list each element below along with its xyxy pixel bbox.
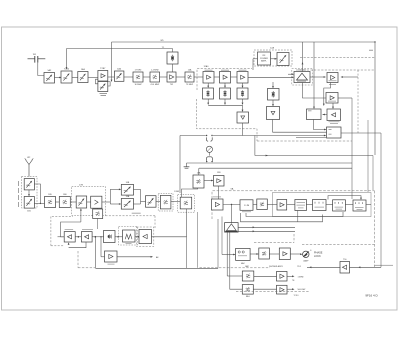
wire FL17 up to IF filter FL18: [182, 188, 198, 197]
wire junction to audio bus: [95, 236, 218, 268]
relay driver K1: [327, 127, 342, 138]
wire U4-U5: [326, 204, 333, 206]
counter U5: [333, 200, 346, 211]
svg-text:17 KHZ: 17 KHZ: [135, 70, 143, 72]
wire RF power module to Q1: [271, 58, 278, 60]
wire A1-FL5: [108, 76, 115, 78]
wire bus drop x197 to audio boundary: [197, 212, 199, 268]
wire A14 out: [287, 288, 306, 291]
wire V4 down to control line: [273, 120, 327, 133]
wire SPKR-A17: [92, 236, 104, 238]
filter FL19: [257, 199, 268, 210]
power amplifier PA3: [237, 70, 248, 83]
wire phase detector feed: [222, 217, 236, 256]
crystal oven Y5: [268, 89, 280, 101]
svg-text:1 MHZ: 1 MHZ: [298, 276, 305, 278]
crystal oscillator Y1: [162, 47, 178, 64]
wire Y3 down to bus: [224, 99, 226, 105]
IF amplifier A2: [167, 72, 176, 86]
module RF power amplifier (text box): [258, 52, 271, 65]
wire PA3 to U10: [248, 73, 294, 78]
wire A19-FL23: [135, 236, 139, 238]
wire bus drop extra x368: [367, 120, 369, 192]
assembly boundary RX mixer (dashed): [72, 185, 106, 216]
wire PA3 to Y4: [242, 83, 244, 88]
wire FL9-FL10: [28, 190, 30, 197]
forward power detector M1: [307, 109, 322, 120]
assembly boundary RX input (dashed): [22, 177, 38, 209]
wire FL22-A14: [253, 288, 276, 290]
wire bus up at x218: [217, 219, 219, 268]
meter M2 (phase lock indicator): [303, 250, 313, 263]
wire Y5 to V4: [272, 100, 274, 107]
wire A8 to FL13: [97, 207, 99, 210]
tunable filter FL1: [44, 69, 55, 83]
wire PA2 to Y3: [224, 83, 226, 88]
svg-text:LAMP: LAMP: [303, 260, 309, 263]
wire into A15 from right: [350, 133, 394, 268]
amplifier A11: [277, 200, 287, 211]
wire junction down to AF amp: [101, 237, 105, 257]
wire A18 out: [117, 256, 159, 259]
wire FL23-SPKR: [115, 236, 123, 238]
final power amplifier U10: [294, 70, 310, 83]
dashed surround FL23: [119, 227, 138, 246]
wire x186 down to bus: [186, 237, 188, 268]
wire FL13 down to audio: [97, 219, 99, 230]
wire PA1-PA2: [214, 76, 220, 78]
first mixer MX1: [76, 196, 87, 208]
svg-text:PHASE: PHASE: [314, 251, 323, 254]
svg-text:AMPL: AMPL: [261, 60, 268, 63]
wire sense down B: [313, 42, 315, 109]
svg-text:TCXO: TCXO: [294, 295, 300, 297]
svg-text:T2B7: T2B7: [100, 68, 106, 70]
rotated label RX input module: [17, 181, 20, 207]
wire MX1-A8: [87, 201, 91, 203]
svg-text:17B: 17B: [79, 185, 83, 187]
bandpass filter FL8: [185, 69, 194, 87]
assembly boundary bottom (dash-dot): [236, 291, 310, 293]
loop amplifier A12: [279, 248, 290, 260]
wire U3 down to feedback: [297, 211, 299, 222]
wire FL18 top to bus: [198, 168, 200, 175]
wire A10-U2: [223, 204, 240, 205]
second mixer MX2: [146, 196, 157, 208]
IF crystal filter FL16: [160, 195, 171, 209]
wire sense up A (arrow up): [302, 42, 304, 72]
dashed surround FL16: [158, 193, 173, 211]
wire FL20-A12: [269, 253, 279, 255]
wire x180 down to RX mixer area: [179, 136, 181, 194]
wire A9 down to demod: [218, 186, 220, 199]
wire rail upper (to FL2): [66, 49, 173, 70]
wire FL21-A13: [254, 275, 277, 277]
feedback wire upper: [246, 212, 343, 217]
wire FL3-A1: [88, 77, 98, 79]
loop filter FL20: [259, 248, 270, 259]
assembly boundary step (dash-dot): [106, 213, 156, 228]
wire FL9 out right: [34, 184, 40, 203]
wire splitter down right: [230, 232, 243, 289]
feedback wire U4 to U6 top: [328, 196, 362, 200]
wire LO into MX1: [80, 208, 82, 222]
bandpass filter FL7: [150, 70, 160, 87]
assembly boundary dividers (dashed): [200, 265, 302, 268]
buffer divider V3: [237, 112, 249, 123]
tunable filter FL3: [78, 68, 88, 83]
driver amplifier PA2: [220, 70, 231, 83]
svg-text:12A: 12A: [270, 47, 274, 50]
wire U10 bottom sense to A6: [303, 83, 327, 99]
wire FL12-MX1: [70, 201, 76, 203]
assembly boundary y141 (dash-dot): [257, 140, 352, 142]
wire V3 down: [242, 123, 244, 136]
wire bus to V3: [242, 105, 244, 112]
IF amplifier A8: [91, 196, 102, 208]
receive amplifier A6: [326, 93, 338, 104]
wire A11-U3: [287, 204, 295, 206]
wire bus drop extra x373: [372, 156, 374, 191]
wire MX2-FL16: [156, 201, 160, 203]
svg-text:T/R: T/R: [170, 84, 174, 86]
connector P1 (upper hooks): [206, 135, 213, 141]
return amplifier A15: [340, 259, 350, 273]
dashed surround FL17: [178, 195, 195, 213]
low pass module U3: [295, 200, 307, 211]
ground symbol GND2: [184, 163, 190, 168]
wire FL16-FL17: [171, 190, 180, 202]
AF output amplifier A18: [105, 251, 118, 264]
wire U2-FL19: [253, 204, 257, 206]
wire demod to splitter: [231, 205, 233, 223]
svg-text:75 MHZ: 75 MHZ: [186, 84, 194, 86]
svg-text:LOCK: LOCK: [314, 255, 321, 258]
wire vertical x358 (dashed): [357, 70, 359, 133]
svg-text:DIVIDER ASSY: DIVIDER ASSY: [269, 265, 284, 268]
wire A17-A16: [75, 236, 81, 238]
wire Y2 down to bus: [207, 99, 209, 105]
assembly boundary audio left (dash-dot): [51, 217, 73, 246]
bus line y168: [199, 167, 352, 169]
IF crystal filter FL17: [180, 197, 192, 209]
antenna coupler A5: [327, 73, 338, 85]
svg-text:41.4 MHZ: 41.4 MHZ: [150, 84, 160, 86]
wire FL8-PA1: [194, 76, 203, 78]
wire A5 down to detector: [323, 83, 331, 107]
wire FL17 down to audio: [186, 209, 188, 237]
audio filter FL23 (W network): [123, 230, 136, 244]
wire V3 branch to synth: [255, 155, 373, 157]
wire splitter out upper: [238, 226, 295, 228]
wire Y1 to A2: [172, 64, 174, 72]
output amplifier A14: [277, 285, 300, 297]
loop wire into A16 left: [61, 222, 81, 237]
RX protector FL9: [24, 179, 34, 190]
crystal filter Y4: [237, 88, 248, 99]
wire FL2-FL3: [72, 77, 78, 79]
antenna W2: [25, 157, 34, 177]
antenna jack J1: [28, 54, 46, 63]
wire J1 to FL1: [38, 63, 44, 76]
IF filter FL18: [193, 172, 204, 189]
phase detector U7: [236, 248, 251, 264]
wire FL10 out: [34, 203, 44, 204]
wire A8 out split: [102, 189, 121, 205]
splitter transformer T1: [225, 223, 239, 233]
svg-text:500 KHZ: 500 KHZ: [298, 289, 307, 291]
label M2 right: [314, 251, 323, 258]
transistor module Q1: [277, 53, 289, 66]
wire splitter out lower: [238, 230, 295, 232]
wire crystal bus: [208, 104, 242, 106]
wire audio feed from FL17: [152, 236, 187, 238]
IF filter FL13: [93, 209, 103, 219]
bus line y163: [187, 162, 353, 164]
wire feed 12A module: [253, 59, 258, 70]
wire A2-FL8: [176, 76, 185, 78]
speaker driver LS1: [104, 231, 116, 243]
wire paths rejoin: [134, 189, 146, 204]
crystal filter Y2: [203, 88, 214, 99]
wire U6 out: [366, 204, 371, 206]
wire U10 out to coupler A5: [310, 76, 326, 78]
assembly boundary PLL (dash-dot): [254, 234, 375, 245]
tune network FL4 (antenna tuner): [98, 82, 108, 96]
wire K1 out right: [341, 132, 381, 134]
wire FL18-A9: [204, 180, 214, 182]
dashed surround U10: [292, 69, 313, 86]
divider filter FL22: [242, 285, 253, 299]
wire A12 to meter M2: [290, 253, 302, 255]
RX attenuator FL10: [24, 197, 34, 213]
tunable coupler FL2: [61, 69, 72, 84]
wire A15 out left: [307, 266, 340, 268]
wire squelch into A16 (dash-dot): [51, 242, 70, 245]
RX filter FL11: [45, 194, 56, 207]
wire into K1 upper: [314, 120, 327, 131]
figure number text: [365, 293, 378, 297]
output amplifier A13: [277, 272, 288, 282]
wire FL7-A2: [160, 76, 168, 78]
IF amplifier A9: [214, 172, 225, 186]
wire into A5 from right: [341, 76, 359, 78]
audio deemphasis A19: [139, 230, 152, 244]
audio amplifier A16: [64, 229, 75, 242]
limiter U2: [240, 200, 253, 212]
bandpass filter FL6: [133, 70, 143, 87]
wire A1 to tuner FL4: [96, 79, 111, 86]
path filter FL14: [121, 182, 133, 195]
demodulator U4: [313, 200, 327, 211]
RX filter FL12: [59, 194, 70, 207]
svg-text:POWER: POWER: [260, 58, 268, 60]
svg-text:1.4 MHZ: 1.4 MHZ: [151, 70, 159, 72]
assembly boundary 12A1 (dash-dot): [197, 65, 258, 141]
wire splitter down left: [227, 232, 242, 276]
wire A6 to comparator: [332, 103, 334, 109]
comparator ALC A7: [327, 109, 341, 124]
tunable filter FL5: [114, 68, 124, 82]
audio amplifier A17: [81, 229, 93, 242]
synthesizer register U6: [353, 200, 366, 211]
path filter FL15: [121, 195, 133, 209]
svg-text:9F16 4 D: 9F16 4 D: [365, 293, 378, 297]
wire U5-U6: [345, 204, 353, 206]
assembly boundary 12A (dashed): [254, 47, 292, 67]
wire PA2-PA3: [231, 76, 238, 78]
wire U3-U4: [306, 204, 312, 206]
feedback wire lower: [241, 213, 323, 222]
wire DS1 stem: [208, 152, 210, 155]
predriver amplifier PA1: [203, 70, 214, 83]
wire branch corner to synth line: [254, 136, 256, 156]
wire A16 out left: [58, 236, 65, 238]
wire rail top long: [111, 40, 376, 155]
assembly boundary top right (dash-dot): [296, 58, 375, 71]
assembly boundary demod (dash-dot): [212, 188, 375, 268]
wire A6 out right to bus: [338, 98, 352, 199]
wire A7 out to detector M1: [323, 114, 328, 116]
wire control line y135 to K1: [180, 135, 326, 138]
divider filter FL21: [242, 271, 254, 281]
svg-text:T2B2: T2B2: [64, 69, 70, 71]
dash-dot surround A19: [137, 227, 154, 247]
wire Y4 down to bus: [242, 99, 244, 105]
wire A17 bottom loop: [69, 242, 86, 248]
buffer divider V4: [267, 107, 280, 120]
meter lamp symbol DS1: [206, 146, 212, 152]
svg-text:1 LIM: 1 LIM: [244, 205, 249, 207]
wire FL1-FL2: [55, 77, 62, 78]
wire FL19-A11: [267, 204, 277, 206]
wire PA1 to Y2: [207, 83, 209, 88]
wire A13 out: [287, 275, 304, 281]
wire FL11-FL12: [56, 201, 60, 203]
assembly boundary audio bottom (dashed): [78, 251, 95, 268]
svg-text:16 MHZ: 16 MHZ: [134, 84, 142, 86]
inner enclosure demod chain: [273, 193, 372, 217]
wire FL5-FL6: [124, 76, 133, 78]
wire bus Y1 up: [172, 49, 174, 53]
crystal filter Y3: [220, 88, 231, 99]
wire U7-FL20: [250, 253, 259, 255]
connector J2 (lower hooks): [206, 157, 213, 163]
demod amplifier A10: [212, 197, 224, 210]
wire FL6-FL7: [143, 76, 150, 78]
driver amplifier A1: [98, 68, 108, 81]
wire into Y5: [272, 82, 274, 89]
svg-text:12A1: 12A1: [203, 65, 209, 68]
